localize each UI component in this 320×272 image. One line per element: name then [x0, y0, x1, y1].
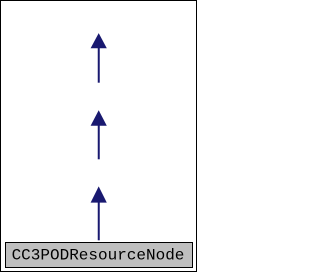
inheritance arrow 1 (top) — [91, 33, 107, 83]
inheritance arrow 3 (bottom) — [91, 186, 107, 240]
inheritance arrow 2 (middle) — [91, 110, 107, 159]
class node box CC3PODResourceNode — [6, 243, 193, 268]
svg-text:CC3PODResourceNode: CC3PODResourceNode — [12, 247, 185, 265]
node label "CC3PODResourceNode" — [12, 247, 185, 265]
border frame — [1, 1, 197, 272]
